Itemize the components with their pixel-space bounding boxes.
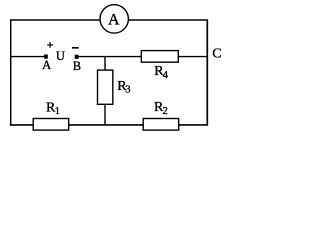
- svg-text:U: U: [56, 49, 65, 63]
- wire R4 to node C: [178, 56, 207, 58]
- svg-text:A: A: [42, 58, 51, 72]
- wire R3 bottom lead: [104, 104, 106, 125]
- wire left vertical: [10, 19, 12, 125]
- svg-text:4: 4: [163, 70, 169, 81]
- svg-text:B: B: [73, 59, 81, 73]
- wire bottom middle segment: [68, 124, 143, 126]
- svg-text:C: C: [212, 47, 221, 62]
- node B (probe dot): [75, 55, 79, 59]
- resistor R4: [141, 51, 178, 81]
- resistor R1: [33, 101, 68, 131]
- wire right vertical: [206, 19, 208, 125]
- polarity + at node A: [47, 42, 53, 48]
- wire bottom left segment: [10, 124, 34, 126]
- node A (probe dot): [44, 55, 48, 59]
- svg-text:1: 1: [55, 106, 60, 117]
- resistor R2: [143, 100, 179, 130]
- svg-text:2: 2: [163, 106, 168, 117]
- wire bottom right segment: [179, 124, 209, 126]
- wire top (battery loop top side): [11, 19, 208, 21]
- wire middle-right (node B to R4 to node C): [78, 56, 142, 58]
- wire R3 top lead: [104, 57, 106, 71]
- svg-text:A: A: [108, 11, 120, 28]
- svg-text:3: 3: [125, 85, 130, 96]
- resistor R3: [98, 70, 131, 104]
- polarity - at node B: [72, 47, 79, 49]
- wire middle-left (to node A): [11, 56, 45, 58]
- ammeter U1 (A): [100, 5, 128, 33]
